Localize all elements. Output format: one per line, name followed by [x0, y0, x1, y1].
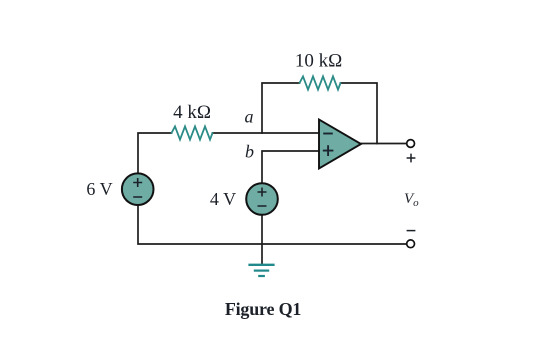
svg-text:b: b	[245, 142, 254, 162]
svg-text:6 V: 6 V	[86, 179, 112, 199]
svg-text:Figure Q1: Figure Q1	[225, 299, 302, 319]
svg-text:10 kΩ: 10 kΩ	[295, 51, 342, 72]
svg-text:4 V: 4 V	[210, 189, 236, 209]
svg-text:4 kΩ: 4 kΩ	[173, 102, 211, 123]
svg-text:a: a	[245, 107, 254, 127]
